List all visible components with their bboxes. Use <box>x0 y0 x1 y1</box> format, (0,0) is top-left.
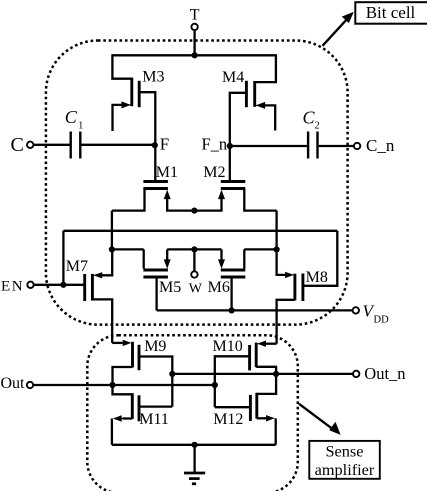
node C terminal <box>27 142 33 148</box>
svg-text:M4: M4 <box>222 69 244 86</box>
wire F_n to C2 <box>230 145 307 147</box>
node C_n terminal <box>354 143 360 149</box>
node cross-couple center <box>191 208 197 214</box>
ground <box>184 445 205 484</box>
svg-text:EN: EN <box>1 279 24 295</box>
wire ground rail <box>112 444 276 446</box>
transistor M11 <box>112 385 172 445</box>
svg-text:M1: M1 <box>156 164 178 181</box>
node W stem <box>193 249 195 271</box>
svg-text:F_n: F_n <box>202 135 228 154</box>
wire C2 to C_n <box>319 145 354 147</box>
svg-text:1: 1 <box>78 121 83 132</box>
svg-text:M9: M9 <box>144 338 166 355</box>
svg-text:M2: M2 <box>203 164 225 181</box>
svg-text:C_n: C_n <box>366 136 395 155</box>
node VDD terminal <box>353 307 359 313</box>
wire right column upper <box>275 211 277 250</box>
svg-text:Bit cell: Bit cell <box>366 3 416 22</box>
node M6 gate junction <box>229 307 235 313</box>
svg-text:amplifier: amplifier <box>315 460 375 479</box>
svg-text:2: 2 <box>315 121 320 132</box>
node F_n <box>227 143 233 149</box>
transistor M5 <box>143 249 170 310</box>
svg-text:M11: M11 <box>139 411 169 428</box>
svg-text:M7: M7 <box>66 258 88 275</box>
transistor M4 <box>230 54 276 146</box>
wire EN <box>33 284 84 286</box>
node Out_n terminal <box>353 371 359 377</box>
node ground junction <box>192 442 198 448</box>
wire C to C1 <box>33 144 69 146</box>
svg-text:M3: M3 <box>142 69 164 86</box>
wire EN rail B <box>63 230 337 232</box>
Bit cell callout box <box>323 2 427 46</box>
svg-text:DD: DD <box>374 314 390 325</box>
svg-text:C: C <box>65 107 78 127</box>
transistor M10 <box>215 341 277 408</box>
svg-text:F: F <box>160 134 169 153</box>
svg-text:M5: M5 <box>159 279 181 296</box>
svg-text:Out: Out <box>1 375 26 392</box>
transistor M2 <box>194 146 276 211</box>
svg-text:C: C <box>303 108 316 128</box>
capacitor C2 <box>308 132 317 159</box>
node Out junction right <box>212 382 218 388</box>
node Out_n junction left <box>169 371 175 377</box>
capacitor C1 <box>71 132 81 159</box>
bit cell dotted border <box>46 41 348 325</box>
svg-text:M6: M6 <box>208 279 230 296</box>
svg-text:Sense: Sense <box>326 442 364 461</box>
transistor M6 <box>218 249 245 310</box>
wire VDD rail <box>157 309 353 311</box>
wire Out_n rail <box>172 373 353 375</box>
wire rail C left <box>112 248 144 250</box>
node Out junction left <box>109 382 115 388</box>
wire left column upper <box>111 211 113 250</box>
transistor M8 <box>277 249 303 343</box>
svg-text:C: C <box>11 134 24 156</box>
node rail C left <box>109 246 115 252</box>
node EN terminal <box>27 282 33 288</box>
node T terminal <box>191 24 197 30</box>
node T junction <box>192 52 198 58</box>
node F <box>152 142 158 148</box>
Sense amplifier callout box <box>299 404 380 479</box>
transistor M12 <box>215 374 276 445</box>
transistor M7 <box>85 249 113 343</box>
node Out terminal <box>27 382 33 388</box>
wire C1 to F <box>82 144 155 146</box>
wire Out rail <box>33 384 215 386</box>
node EN junction <box>60 282 66 288</box>
svg-text:Out_n: Out_n <box>364 364 405 383</box>
svg-text:M8: M8 <box>306 269 328 286</box>
svg-text:T: T <box>190 6 200 23</box>
transistor M9 <box>112 340 172 407</box>
transistor M1 <box>112 146 194 211</box>
sense amplifier dotted border <box>87 335 297 491</box>
svg-text:M12: M12 <box>213 411 243 428</box>
svg-text:M10: M10 <box>213 338 243 355</box>
node W terminal <box>191 271 197 277</box>
svg-text:W: W <box>189 282 203 297</box>
wire top rail <box>112 54 276 56</box>
node rail C right <box>274 246 280 252</box>
node rail C center W <box>191 246 197 252</box>
wire T stem <box>193 30 195 56</box>
wire rail C right <box>244 248 276 250</box>
wire rail C mid <box>167 248 221 250</box>
transistor M3 <box>112 54 155 146</box>
node Out_n junction right <box>273 371 279 377</box>
